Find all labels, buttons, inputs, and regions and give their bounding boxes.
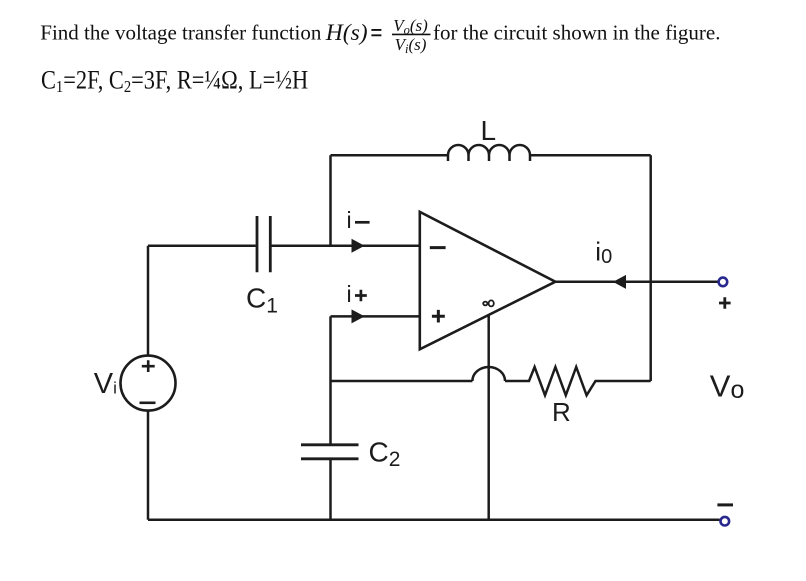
svg-text:Vi(s): Vi(s) bbox=[395, 35, 427, 56]
svg-text:H(s): H(s) bbox=[325, 20, 368, 46]
svg-text:i: i bbox=[347, 207, 352, 233]
svg-text:R: R bbox=[552, 397, 571, 427]
svg-text:for the circuit shown in the f: for the circuit shown in the figure. bbox=[433, 21, 721, 45]
svg-text:i: i bbox=[347, 281, 352, 307]
svg-text:Find the voltage transfer func: Find the voltage transfer function bbox=[40, 21, 322, 45]
svg-text:C1=2F, C2=3F, R=¼Ω, L=½H: C1=2F, C2=3F, R=¼Ω, L=½H bbox=[41, 66, 308, 96]
svg-text:L: L bbox=[481, 115, 497, 146]
